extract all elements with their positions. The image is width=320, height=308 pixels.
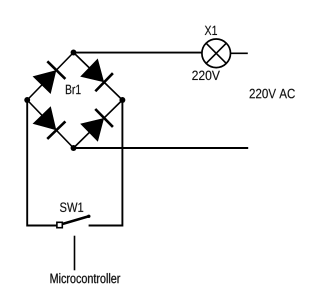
wire: top AC wire from bridge top node to lamp X1 — [74, 52, 203, 54]
wire: bridge side top node to right node — [74, 53, 123, 101]
wire: bridge side bottom node to right node — [74, 100, 123, 148]
wire: bridge side left node to bottom node — [27, 100, 73, 148]
wire: bridge side left node to top node — [27, 53, 73, 101]
node: bridge bottom junction dot — [71, 145, 77, 151]
label Microcontroller — [51, 273, 121, 283]
node: bridge top junction dot — [71, 50, 77, 56]
wire: right vertical from bridge right node down to switch row — [89, 100, 123, 226]
node: bridge right junction dot — [119, 97, 125, 103]
net label 220V AC — [250, 89, 295, 99]
diode Br1 upper-left (anode at left node, cathode toward top node) — [33, 61, 66, 94]
switch SW1 contact (open square) — [57, 222, 62, 227]
label Br1 — [66, 85, 81, 94]
value label 220V (lamp) — [192, 71, 220, 81]
wire: bottom AC wire from bridge bottom node to open end — [74, 147, 249, 149]
switch SW1 lever end dot — [87, 215, 90, 218]
node: bridge left junction dot — [24, 97, 30, 103]
diode Br1 lower-left (anode at left node, cathode toward bottom node) — [33, 106, 66, 139]
label X1 — [205, 26, 217, 35]
wire: lamp X1 right terminal to open end — [231, 52, 248, 54]
diode Br1 lower-right (anode at bottom node, cathode toward right node) — [80, 109, 113, 142]
wire: left vertical from bridge left node down to switch row — [27, 100, 57, 226]
lamp X1 (circle with cross) — [202, 39, 231, 68]
label SW1 — [60, 203, 83, 213]
diode Br1 upper-right (anode at top node, cathode toward right node) — [80, 59, 113, 92]
wire: stub from switch to Microcontroller label — [74, 236, 76, 271]
switch SW1 lever — [63, 216, 89, 224]
